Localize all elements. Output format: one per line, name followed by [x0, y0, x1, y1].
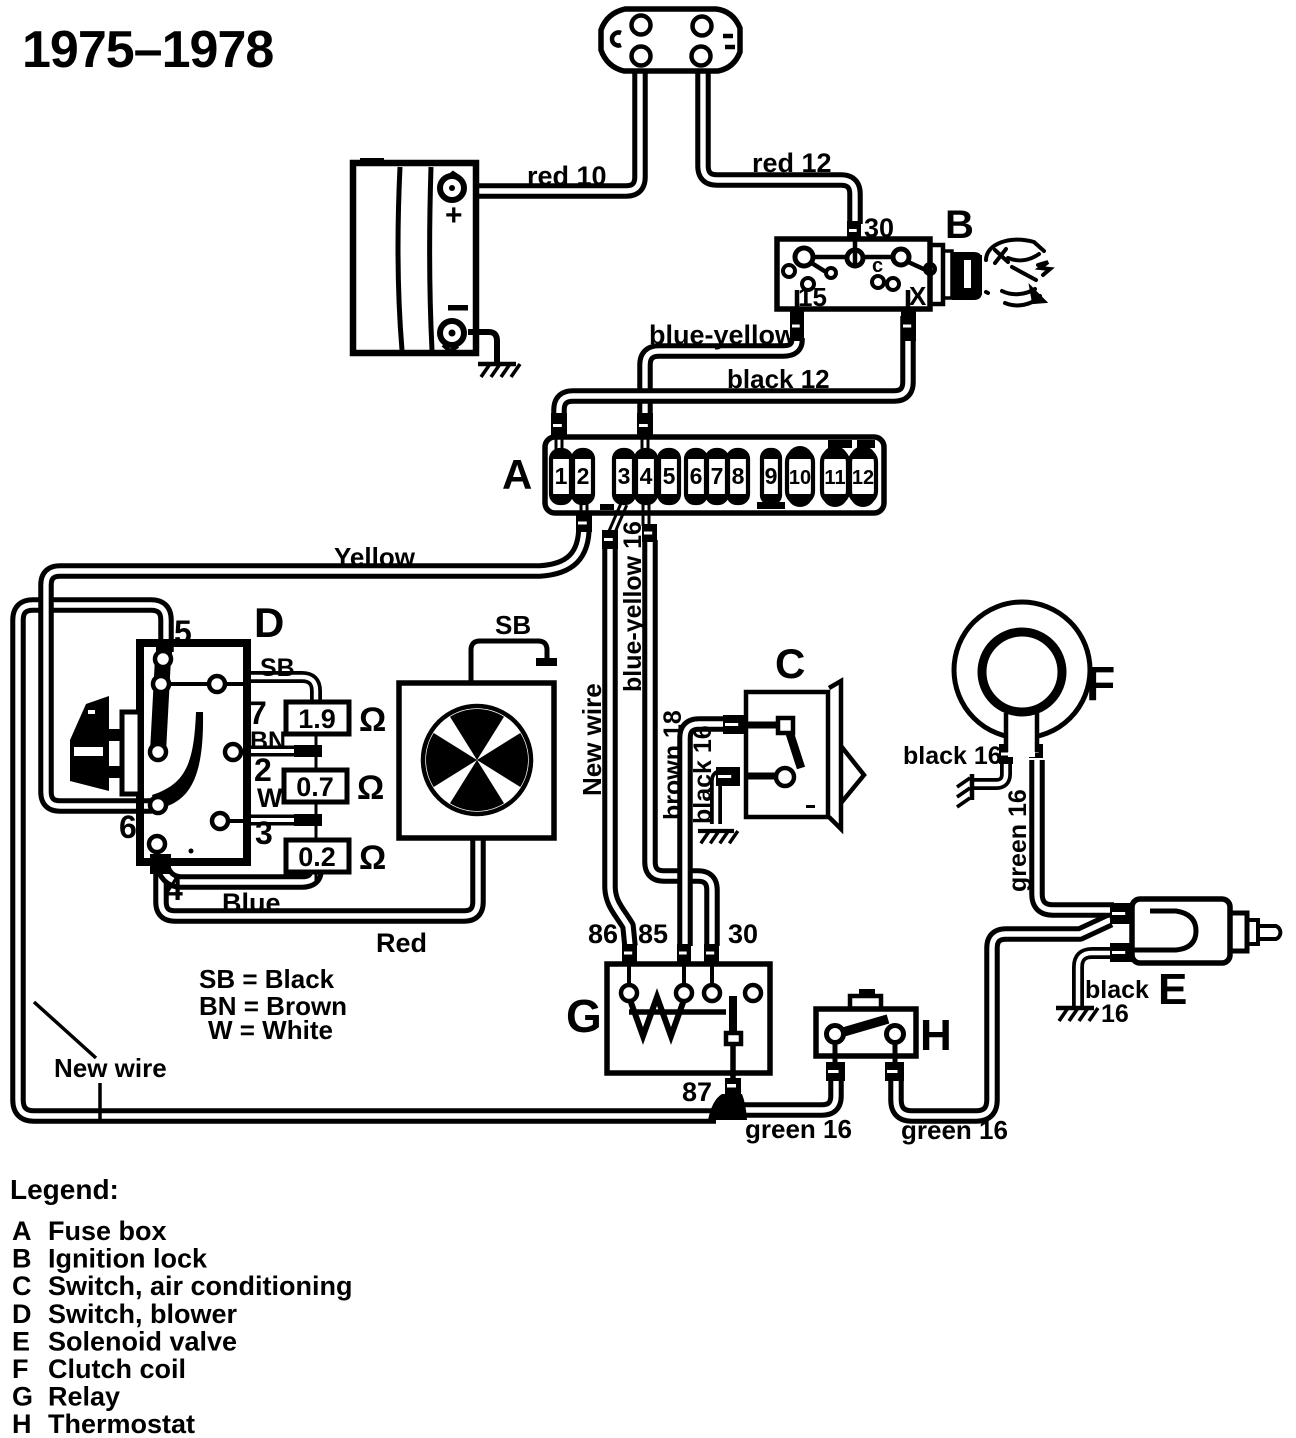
fuse 8 [728, 449, 748, 504]
svg-text:W = White: W = White [208, 1015, 333, 1045]
ground clutch coil F [957, 774, 972, 807]
fan blades [426, 709, 528, 811]
label legend E text [48, 1326, 237, 1356]
wire Yellow (fuse 2 to D6) [46, 526, 584, 806]
svg-text:30: 30 [864, 213, 894, 243]
ground battery [478, 364, 520, 377]
label legend G text [48, 1382, 120, 1412]
wire green 16 (H to E) [896, 920, 1110, 1116]
label component letter C [775, 640, 805, 687]
svg-text:blue-yellow 16: blue-yellow 16 [619, 521, 647, 692]
ground switch C black 16 [698, 831, 738, 843]
relay terminal stubs [629, 960, 712, 986]
label legend D [12, 1299, 32, 1329]
svg-text:Red: Red [376, 928, 427, 958]
svg-text:black 16: black 16 [689, 725, 717, 824]
connector D terminal 4 [150, 854, 171, 874]
connector switch C lower [716, 767, 740, 786]
svg-text:Thermostat: Thermostat [48, 1409, 195, 1438]
svg-text:6: 6 [119, 809, 137, 845]
svg-text:SB = Black: SB = Black [199, 964, 335, 994]
fuse 12 [850, 446, 876, 507]
label black E [1085, 976, 1149, 1004]
label component letter H [920, 1011, 952, 1060]
label SB [260, 654, 295, 682]
wire fuse4 top stub [641, 436, 650, 452]
svg-text:D: D [254, 599, 284, 646]
battery [353, 158, 476, 353]
label legend H text [48, 1409, 195, 1438]
junction blob 87 [708, 1094, 747, 1120]
label title 1975-1978 [22, 21, 273, 79]
svg-text:H: H [12, 1409, 32, 1438]
svg-text:Ω: Ω [359, 839, 386, 877]
svg-text:3: 3 [618, 463, 631, 489]
svg-text:E: E [12, 1326, 30, 1356]
connector H left [826, 1062, 845, 1081]
resistor 0.2 ohm [286, 839, 386, 877]
svg-text:G: G [566, 990, 602, 1042]
wire SB wire (D7 to resistor) [249, 677, 316, 706]
label Blue [222, 888, 281, 918]
ground solenoid E black 16 [1056, 1008, 1098, 1021]
clutch coil F [954, 602, 1090, 757]
switch D rotor [152, 658, 203, 854]
connector E lower [1110, 943, 1134, 962]
label terminal 30 [864, 213, 894, 243]
wire Red (D4 to motor) [161, 840, 478, 916]
wire fuse2 bottom stub [580, 503, 589, 517]
relay armature line [629, 1009, 726, 1015]
svg-text:B: B [945, 203, 974, 247]
svg-text:BN: BN [250, 727, 286, 755]
switch D box [140, 643, 247, 862]
label legend B text [48, 1244, 208, 1274]
label terminal 30 relay [728, 919, 758, 949]
wire fuse3 stub [611, 504, 624, 534]
svg-text:9: 9 [765, 463, 778, 489]
svg-text:10: 10 [789, 467, 811, 489]
label blue-yellow [649, 320, 797, 350]
fuse 1 [551, 449, 571, 504]
connector relay 30 [704, 944, 719, 962]
connector switch C upper [723, 715, 747, 734]
svg-text:4: 4 [165, 871, 183, 907]
svg-text:5: 5 [663, 463, 676, 489]
svg-text:86: 86 [588, 919, 618, 949]
switch C box [746, 681, 864, 829]
svg-text:green 16: green 16 [1004, 789, 1032, 892]
wire W stub [249, 815, 296, 826]
label black 16 C [689, 725, 717, 824]
svg-text:1: 1 [555, 463, 568, 489]
label Yellow [334, 542, 416, 572]
label legend A [12, 1216, 32, 1246]
thermostat H [816, 989, 916, 1062]
svg-text:B: B [12, 1244, 32, 1274]
fuse 7 [707, 449, 727, 504]
label component letter A [502, 451, 532, 498]
hand with key sketch [986, 240, 1050, 306]
svg-text:Clutch coil: Clutch coil [48, 1354, 186, 1384]
svg-text:7: 7 [711, 463, 724, 489]
svg-text:E: E [1158, 965, 1187, 1014]
svg-text:Ω: Ω [359, 701, 386, 739]
wire black 12 (X to fuse1) [559, 316, 908, 416]
svg-text:red 10: red 10 [527, 161, 607, 191]
svg-text:A: A [502, 451, 532, 498]
resistor chain links [315, 734, 318, 882]
label terminal 86 [588, 919, 618, 949]
SB bracket wire (motor ground) [471, 641, 547, 684]
label Red [376, 928, 427, 958]
wire red 10 [474, 72, 640, 191]
wire green 16 (87 to H) [740, 1080, 836, 1110]
label component letter G [566, 990, 602, 1042]
label legend F text [48, 1354, 186, 1384]
label terminal 87 [682, 1077, 712, 1107]
label 16 E [1101, 1000, 1129, 1028]
svg-text:F: F [12, 1354, 29, 1384]
svg-text:SB: SB [495, 610, 531, 640]
svg-text:5: 5 [174, 614, 192, 650]
svg-text:C: C [775, 640, 805, 687]
switch D contact lines [169, 684, 247, 821]
label terminal 85 [638, 919, 668, 949]
svg-text:Yellow: Yellow [334, 542, 416, 572]
svg-text:8: 8 [732, 463, 745, 489]
label legend C [12, 1271, 32, 1301]
svg-text:87: 87 [682, 1077, 712, 1107]
wire New wire (fuse3 to 86) [610, 546, 630, 946]
ignition lock B box [777, 239, 935, 309]
svg-text:red 12: red 12 [752, 148, 832, 178]
svg-text:blue-yellow: blue-yellow [649, 320, 797, 350]
label terminal 5 [174, 614, 192, 650]
svg-text:brown 18: brown 18 [659, 710, 687, 820]
fuse 3 [614, 449, 634, 504]
wire blue-yellow (15 to fuse4) [645, 338, 797, 416]
label BN = Brown [199, 991, 347, 1021]
wire new wire loop (87 to D5) [18, 605, 716, 1116]
connector F right pin [1029, 744, 1043, 758]
label component letter D [254, 599, 284, 646]
svg-text:Solenoid valve: Solenoid valve [48, 1326, 237, 1356]
svg-text:Relay: Relay [48, 1382, 120, 1412]
label Legend heading [10, 1174, 119, 1205]
battery - terminal [440, 321, 464, 351]
connector ignition 30 [847, 221, 861, 240]
label component letter F [1086, 658, 1115, 711]
wire blue-yellow 16 (fuse4 to 30) [650, 540, 712, 946]
wire brown 18 (C to 85) [685, 724, 728, 946]
switch C contacts [748, 718, 815, 808]
connector F left pin [999, 744, 1013, 764]
label legend B [12, 1244, 32, 1274]
wire Blue (D4 to resistors) [161, 862, 316, 882]
label black 12 [727, 364, 830, 394]
fuse 9 [762, 450, 780, 503]
label SB motor [495, 610, 531, 640]
fan motor box [399, 683, 554, 838]
label component letter E [1158, 965, 1187, 1014]
svg-text:85: 85 [638, 919, 668, 949]
wire black 16 (E to ground) [1078, 953, 1114, 1006]
label component letter B [945, 203, 974, 247]
label green 16 F [1004, 789, 1032, 892]
svg-text:Switch, air conditioning: Switch, air conditioning [48, 1271, 353, 1301]
wire red 12 [703, 72, 855, 224]
svg-text:7: 7 [249, 695, 267, 731]
connector E upper [1110, 903, 1134, 924]
connector plug (top) [601, 9, 740, 71]
label terminal 15 [798, 282, 827, 312]
wire green 16 (F to E) [1037, 760, 1114, 910]
wire fuse4 bottom stub [642, 504, 651, 526]
label terminal 3 [255, 815, 273, 851]
connector fuse3 bottom [602, 530, 618, 549]
switch D terminal circles [149, 651, 241, 852]
label legend H [12, 1409, 32, 1438]
label red 10 [527, 161, 607, 191]
wire battery ground lead [468, 332, 497, 363]
label green 16 left [745, 1114, 852, 1144]
connector relay 86 [622, 944, 637, 962]
svg-text:G: G [12, 1382, 33, 1412]
fuse box scan marks [600, 440, 875, 510]
svg-text:15: 15 [798, 282, 827, 312]
connector D terminal 5 [156, 641, 172, 658]
svg-text:1.9: 1.9 [298, 704, 336, 734]
fuse 10 [787, 446, 813, 507]
svg-text:16: 16 [1101, 1000, 1129, 1028]
solenoid valve E [1132, 899, 1280, 963]
battery + terminal [440, 173, 464, 200]
svg-text:6: 6 [690, 463, 703, 489]
svg-text:0.2: 0.2 [298, 842, 336, 872]
label terminal 4 [165, 871, 183, 907]
wire BN stub [249, 746, 296, 757]
svg-text:X: X [909, 281, 927, 311]
svg-text:Fuse box: Fuse box [48, 1216, 167, 1246]
relay terminal circles [621, 985, 761, 1001]
svg-text:black 16: black 16 [903, 742, 1002, 770]
svg-text:New wire: New wire [577, 683, 607, 796]
label New wire vertical [577, 683, 607, 796]
connector ignition X [901, 311, 916, 341]
wire fuse1 top stub [555, 436, 564, 452]
fuse 2 [573, 449, 593, 504]
svg-text:black 12: black 12 [727, 364, 830, 394]
svg-text:c: c [872, 255, 883, 277]
label black 16 F [903, 742, 1002, 770]
svg-text:2: 2 [577, 463, 590, 489]
svg-text:Ω: Ω [357, 769, 384, 807]
label terminal 6 [119, 809, 137, 845]
label terminal X [909, 281, 927, 311]
svg-text:Switch, blower: Switch, blower [48, 1299, 238, 1329]
resistor 1.9 ohm [286, 701, 386, 739]
svg-text:Legend:: Legend: [10, 1174, 119, 1205]
fuse box A [545, 437, 884, 513]
svg-text:W: W [257, 783, 283, 813]
connector H right [885, 1062, 904, 1081]
label legend F [12, 1354, 29, 1384]
connector fuse1 top [551, 413, 567, 438]
label terminal 7 [249, 695, 267, 731]
switch D knob [70, 696, 140, 794]
svg-text:green 16: green 16 [745, 1114, 852, 1144]
svg-text:A: A [12, 1216, 32, 1246]
battery minus sign [448, 305, 468, 311]
svg-text:Ignition lock: Ignition lock [48, 1244, 208, 1274]
label green 16 right [901, 1115, 1008, 1145]
label battery plus sign [445, 199, 463, 232]
label red 12 [752, 148, 832, 178]
label blue-yellow 16 [619, 521, 647, 692]
svg-text:H: H [920, 1011, 952, 1060]
fuse 4 [636, 449, 656, 504]
leader lines new wire [34, 1002, 100, 1122]
label BN [250, 727, 286, 755]
label legend D text [48, 1299, 238, 1329]
label SB = Black [199, 964, 335, 994]
svg-text:11: 11 [824, 467, 845, 489]
svg-text:New wire: New wire [54, 1053, 167, 1083]
svg-text:D: D [12, 1299, 32, 1329]
relay coil W [629, 997, 685, 1036]
svg-text:C: C [12, 1271, 32, 1301]
SB bracket foot [536, 658, 557, 666]
connector relay 85 [677, 944, 691, 962]
svg-text:F: F [1086, 658, 1115, 711]
wire black 16 (F to ground) [974, 760, 1006, 784]
relay contact bar [725, 996, 741, 1094]
svg-text:Blue: Blue [222, 888, 281, 918]
svg-text:3: 3 [255, 815, 273, 851]
label New wire bottom [54, 1053, 167, 1083]
connector fuse4 top [637, 413, 653, 438]
svg-text:+: + [445, 199, 463, 232]
fuse 5 [659, 449, 679, 504]
connector ignition 15 [790, 311, 804, 341]
fuse 6 [686, 449, 706, 504]
svg-text:30: 30 [728, 919, 758, 949]
wire black 16 (C to ground) [716, 775, 724, 824]
connector fuse4 bottom [642, 524, 657, 542]
relay G box [607, 964, 770, 1073]
svg-text:4: 4 [640, 463, 653, 489]
svg-text:1975–1978: 1975–1978 [22, 21, 273, 79]
label terminal 2 [254, 752, 272, 788]
label legend A text [48, 1216, 167, 1246]
label legend G [12, 1382, 33, 1412]
svg-text:0.7: 0.7 [296, 772, 334, 802]
label brown 18 [659, 710, 687, 820]
label W [257, 783, 283, 813]
svg-text:12: 12 [852, 467, 874, 489]
fuse 11 [822, 446, 848, 507]
svg-text:SB: SB [260, 654, 295, 682]
resistor 0.7 ohm [284, 769, 384, 807]
connector fuse2 bottom [576, 514, 592, 532]
BN connector bar [294, 745, 322, 757]
label W = White [208, 1015, 333, 1045]
ignition key cylinder [930, 245, 982, 304]
svg-text:green 16: green 16 [901, 1115, 1008, 1145]
W connector bar [294, 814, 322, 826]
label legend E [12, 1326, 30, 1356]
label legend C text [48, 1271, 353, 1301]
